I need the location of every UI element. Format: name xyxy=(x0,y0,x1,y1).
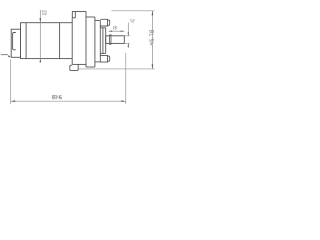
clamp bottom lug xyxy=(70,64,78,70)
connector inner tab xyxy=(13,33,16,50)
pump body section top xyxy=(86,16,95,18)
clamp top lug xyxy=(72,12,75,18)
bottom outlet stub end ring xyxy=(108,56,110,61)
height dim ext line bottom xyxy=(78,68,154,70)
dim 13 line xyxy=(109,30,125,32)
dim diameter text xyxy=(42,10,47,12)
nozzle tube xyxy=(106,36,125,44)
dim 13 text xyxy=(114,26,117,29)
clamp band top xyxy=(72,11,86,13)
wire leader arrow xyxy=(8,55,11,57)
motor seam line xyxy=(59,23,61,59)
dim diameter arrow down xyxy=(40,18,42,23)
nozzle boss bottom xyxy=(100,52,105,54)
dim 13 left arrow xyxy=(109,31,113,32)
height dim text 45.78 xyxy=(150,30,154,44)
dim 13 right arrow xyxy=(121,31,125,32)
bottom outlet stub xyxy=(100,55,107,62)
height dim arrow down xyxy=(152,64,154,69)
dim nozzle od line upper xyxy=(127,23,129,36)
nozzle boss top xyxy=(100,27,105,29)
pump body section bottom xyxy=(86,66,95,68)
length dim line xyxy=(11,100,126,102)
pump body right edge xyxy=(94,17,96,67)
connector block xyxy=(11,29,20,57)
dim nozzle od ext top xyxy=(124,35,129,37)
dim nozzle od arrow up xyxy=(128,43,129,46)
clamp band right edge xyxy=(85,12,87,68)
clamp top lug inner line xyxy=(74,12,76,18)
dim diameter line through body xyxy=(39,23,41,59)
pump head left face upper xyxy=(71,18,73,23)
length dim right arrow xyxy=(121,100,126,102)
nozzle boss right edge xyxy=(105,28,107,54)
pump head left face lower xyxy=(71,59,73,65)
dim diameter arrow up xyxy=(40,59,42,63)
front cover bottom xyxy=(95,61,100,63)
motor body xyxy=(21,23,73,59)
length dim text 89.46 xyxy=(52,95,61,99)
dim nozzle od ext bottom xyxy=(124,42,129,44)
height dim ext line top xyxy=(112,10,155,12)
dim diameter line lower xyxy=(39,59,41,63)
motor end cap line xyxy=(25,23,27,59)
top inlet stub end ring xyxy=(108,20,110,25)
dim nozzle od line lower xyxy=(127,43,129,48)
length dim ext line right xyxy=(125,53,127,104)
dim nozzle od arrow down xyxy=(128,32,129,35)
top inlet stub xyxy=(100,19,107,26)
clamp band bottom xyxy=(72,63,86,65)
front cover face xyxy=(99,20,101,62)
length dim ext line left xyxy=(10,60,12,105)
height dim arrow up xyxy=(152,11,154,16)
dim nozzle od text xyxy=(130,20,134,23)
nozzle boss inner ring xyxy=(102,28,104,54)
front cover top xyxy=(95,19,100,21)
length dim left arrow xyxy=(11,100,16,102)
dim diameter line upper xyxy=(39,10,41,23)
height dim line xyxy=(151,11,153,69)
nozzle barb collar xyxy=(110,35,111,44)
wire leader line xyxy=(1,54,8,56)
